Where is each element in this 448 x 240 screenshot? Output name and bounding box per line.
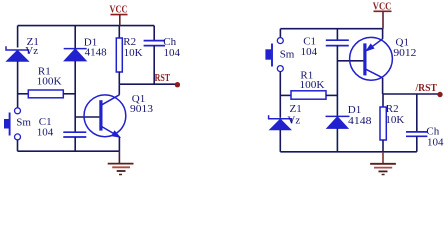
svg-text:RST: RST (155, 72, 171, 84)
svg-text:9012: 9012 (393, 47, 416, 59)
wire top rail right circuit (280, 28, 383, 30)
transistor Q1 NPN (left) (84, 95, 126, 137)
resistor R2 (left) (116, 26, 122, 85)
resistor R1 (right) (280, 91, 337, 99)
diode D1 (left) (64, 49, 87, 61)
svg-text:104: 104 (427, 136, 444, 148)
transistor Q1 PNP (right) (350, 37, 393, 80)
label Ch (left) (163, 36, 176, 48)
wire C1 branch top (right) (336, 29, 338, 41)
label D1 (84, 37, 97, 49)
label 100K (37, 76, 62, 88)
label Ch (right) (426, 125, 439, 137)
svg-text:Z1: Z1 (290, 103, 302, 115)
label D1 (right) (348, 104, 361, 116)
svg-text:4148: 4148 (348, 115, 372, 127)
wire D1-to-C1 vertical (node B) (74, 61, 76, 132)
svg-text:VCC: VCC (110, 3, 128, 15)
wire left rail lower segment (17, 140, 19, 151)
label RST (155, 72, 171, 84)
wire D1 branch top (74, 26, 76, 48)
label 100K (right) (300, 79, 325, 91)
resistor R2 (right) (380, 94, 386, 152)
switch Sm (left) (4, 108, 21, 140)
capacitor Ch (left) (144, 26, 165, 85)
label Vz (25, 45, 38, 57)
svg-text:104: 104 (37, 126, 54, 138)
svg-text:100K: 100K (300, 79, 325, 91)
capacitor C1 (left) (63, 132, 86, 151)
svg-text:4148: 4148 (85, 47, 108, 59)
label R2 (right) (386, 103, 399, 115)
label 9013 (130, 103, 154, 115)
label 104 (Ch left) (164, 47, 181, 59)
ground (left) (108, 164, 134, 175)
wire ground lead (right) (382, 152, 384, 163)
label 4148 (right) (348, 115, 372, 127)
diode D1 (right) (326, 116, 350, 151)
zener Z1 (left) (6, 46, 29, 61)
wire top rail left circuit (18, 25, 155, 27)
label 10K (left) (124, 47, 143, 59)
wire emitter lead (left) (118, 137, 120, 151)
label Sm (left) (16, 116, 31, 128)
label C1 (left) (39, 116, 52, 128)
label Vz (right) (287, 115, 300, 127)
ground (right) (370, 164, 396, 175)
wire net /RST (383, 93, 439, 95)
capacitor Ch (right) (406, 94, 427, 152)
svg-text:9013: 9013 (130, 103, 154, 115)
label Sm (right) (280, 48, 295, 60)
wire base (left Q1) (75, 116, 99, 118)
node RST dot (175, 82, 180, 87)
label R1 (right) (300, 69, 313, 81)
wire left rail upper segment (17, 26, 19, 48)
svg-text:104: 104 (301, 46, 318, 58)
power VCC (left) (110, 3, 128, 25)
label Z1 (right) (290, 103, 302, 115)
label Q1 (left) (132, 93, 145, 105)
svg-text:Sm: Sm (16, 116, 31, 128)
svg-text:Vz: Vz (25, 45, 38, 57)
svg-text:100K: 100K (37, 76, 62, 88)
power VCC (right) (373, 0, 392, 28)
wire left rail mid (right circuit) (279, 72, 281, 118)
wire base (right Q1) (337, 60, 363, 62)
label 104 (C1 left) (37, 126, 54, 138)
label 104 (Ch right) (427, 136, 444, 148)
svg-text:/RST: /RST (415, 82, 438, 94)
label 10K (right) (385, 114, 404, 126)
wire left rail middle segment (17, 61, 19, 107)
wire ground lead (left) (118, 151, 120, 163)
label /RST (415, 82, 438, 94)
node /RST dot (437, 92, 442, 97)
wire C1-to-D1 vertical (right, node base) (336, 46, 338, 116)
wire collector to junction (right) (382, 78, 384, 94)
svg-text:10K: 10K (385, 114, 404, 126)
wire bottom rail left circuit (18, 150, 120, 152)
label C1 (right) (303, 36, 316, 48)
capacitor C1 (right) (326, 40, 349, 45)
label 9012 (393, 47, 416, 59)
wire left rail top (right circuit) (279, 29, 281, 38)
svg-text:10K: 10K (124, 47, 143, 59)
label Q1 (right) (396, 37, 409, 49)
resistor R1 (left) (18, 90, 76, 98)
wire net RST (119, 83, 176, 85)
label R1 (38, 66, 51, 78)
switch Sm (right) (265, 38, 283, 72)
label 104 (C1 right) (301, 46, 318, 58)
svg-text:Sm: Sm (280, 48, 295, 60)
svg-text:104: 104 (164, 47, 181, 59)
label Z1 (27, 36, 39, 48)
label R2 (left) (123, 36, 136, 48)
svg-text:Vz: Vz (287, 115, 300, 127)
wire collector to junction (left) (118, 84, 120, 95)
label 4148 (85, 47, 108, 59)
wire left rail bottom (right circuit) (279, 130, 281, 152)
wire emitter to rail (right) (382, 29, 384, 39)
zener Z1 (right) (269, 115, 292, 130)
wire bottom rail right circuit (280, 151, 417, 153)
